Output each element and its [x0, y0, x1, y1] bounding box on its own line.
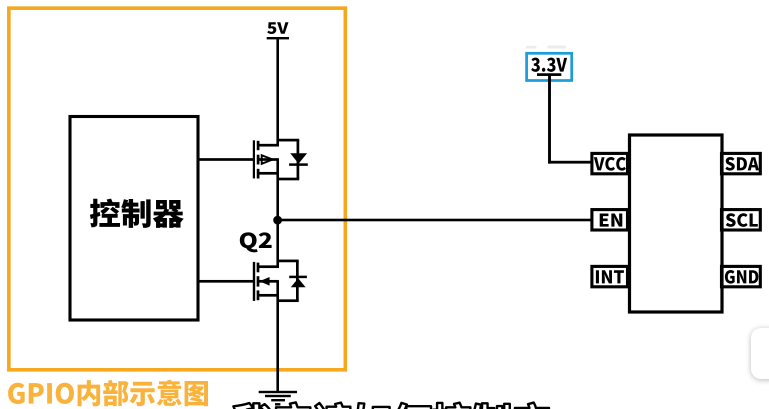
body diode D-top	[278, 139, 308, 181]
wire 5V to Q2a drain	[276, 39, 279, 146]
wire 3.3V to VCC	[548, 75, 592, 164]
node junction	[273, 216, 282, 225]
pin VCC	[592, 153, 628, 173]
controller box	[70, 117, 198, 321]
wire gate top	[198, 158, 254, 161]
pin SCL	[722, 210, 761, 230]
power port 3.3V	[527, 53, 572, 80]
pin SDA	[722, 153, 761, 173]
ground	[259, 391, 297, 406]
transistor Q2a PMOS top	[253, 140, 279, 178]
wire gate bottom	[198, 280, 254, 283]
IC U1 body	[630, 135, 723, 312]
body diode D-bottom	[278, 260, 307, 303]
wire node to EN	[278, 219, 592, 222]
wire Q2a source to node	[276, 160, 279, 269]
pin EN	[592, 210, 628, 230]
pin INT	[592, 266, 628, 286]
label Q2	[240, 232, 258, 252]
wire Q2b bulk/source	[276, 281, 279, 392]
pin GND	[722, 266, 761, 286]
label 控制器	[90, 199, 120, 228]
transistor Q2b NMOS bottom	[253, 262, 279, 301]
power port 5V	[267, 22, 289, 39]
